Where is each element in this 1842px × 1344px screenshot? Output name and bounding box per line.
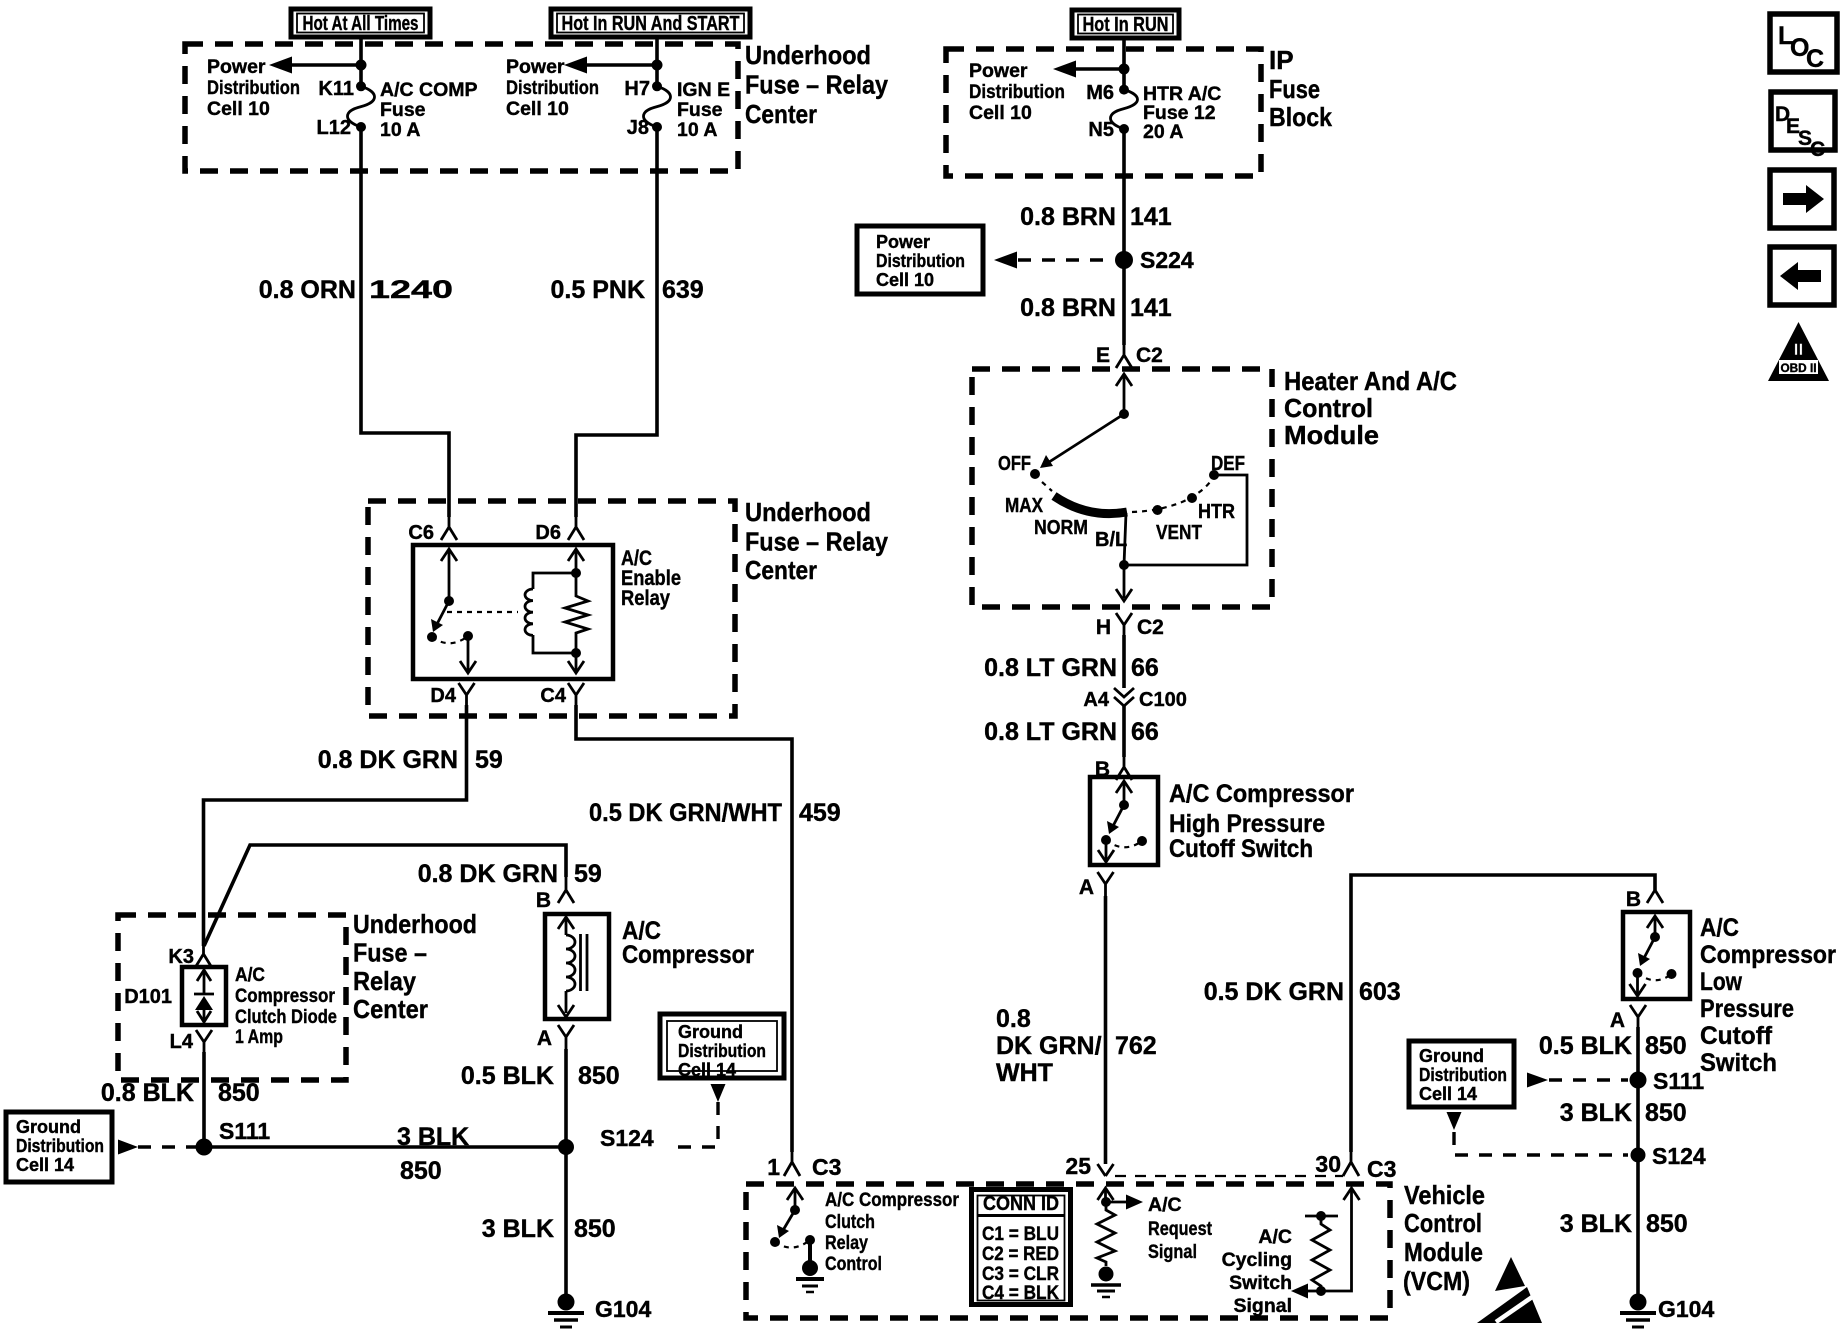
power tag Hot In RUN [1072,10,1179,38]
label A/C COMP Fuse 10 A [380,79,478,141]
wire D4 to K3, circuit 59 [204,705,467,946]
dashed arrow power distribution to S224 [994,252,1112,269]
svg-text:3 BLK: 3 BLK [1560,1210,1632,1238]
svg-text:0.5 BLK: 0.5 BLK [461,1062,554,1090]
svg-text:M6: M6 [1086,82,1114,104]
pin 1 entry arrow inside VCM [787,1188,803,1210]
svg-text:Compressor: Compressor [1700,941,1836,969]
low pressure switch element [1630,916,1677,996]
svg-text:Distribution: Distribution [969,81,1065,103]
svg-text:B/L: B/L [1095,529,1127,551]
label A/C Enable Relay [621,547,681,610]
svg-text:Request: Request [1148,1218,1212,1240]
svg-text:141: 141 [1130,203,1172,231]
wire A to VCM pin 25, circuit 762 [1104,896,1108,1164]
box IP Fuse Block (dashed) [946,49,1261,176]
connector A4 C100 (chevrons) [1083,688,1186,711]
label 0.8 DK GRN 59 (lower) [418,860,602,888]
relay switch arm [431,601,449,632]
svg-text:C: C [1810,138,1825,161]
label 0.5 PNK 639 [551,276,704,304]
label Power Distribution Cell 10 (right) [506,56,599,120]
label Power Distribution Cell 10 (left) [207,56,300,120]
node cycling switch tap [1316,1286,1326,1296]
svg-text:DK GRN/: DK GRN/ [996,1032,1102,1060]
svg-text:DEF: DEF [1211,453,1245,475]
icon DESC button [1771,92,1835,161]
A/C Compressor High Pressure Cutoff Switch box [1090,777,1158,865]
label 0.8 ORN 1240 [259,276,453,304]
svg-text:C100: C100 [1139,689,1187,711]
svg-text:A/C Compressor: A/C Compressor [825,1189,959,1211]
svg-text:A/C: A/C [1148,1194,1182,1216]
svg-text:VENT: VENT [1156,522,1202,544]
clutch relay control switch pivot node [790,1205,800,1215]
svg-text:C2: C2 [1136,344,1163,367]
svg-text:850: 850 [578,1062,620,1090]
svg-text:A4: A4 [1083,689,1109,711]
clutch relay control switch arm [777,1210,795,1238]
svg-text:K3: K3 [168,946,194,968]
svg-text:B: B [536,889,551,912]
svg-text:IP: IP [1269,45,1294,75]
wire A to S111 (right), circuit 850 [1636,1027,1640,1079]
svg-text:A: A [1610,1009,1625,1032]
label 3 BLK 850 (horizontal run) [397,1123,469,1185]
svg-text:0.8 ORN: 0.8 ORN [259,276,356,304]
wire S111 to S124 (right), circuit 850 [1636,1080,1640,1155]
svg-text:L12: L12 [317,117,351,139]
label Power Distribution Cell 10 (IP) [969,60,1065,124]
dashed contact arc (clutch relay) [775,1240,810,1248]
svg-text:H7: H7 [624,78,650,100]
svg-text:Switch: Switch [1700,1049,1777,1077]
svg-text:0.8 DK GRN: 0.8 DK GRN [318,746,458,774]
svg-text:0.8 BLK: 0.8 BLK [101,1079,194,1107]
svg-text:Signal: Signal [1148,1241,1197,1263]
svg-text:B: B [1626,888,1641,911]
connector H C2 (female) [1096,613,1164,639]
svg-text:Distribution: Distribution [678,1041,766,1061]
box Underhood Fuse-Relay Center (middle, dashed) [368,501,735,716]
wire J8 to D6, circuit 639 [576,127,657,517]
svg-text:Fuse: Fuse [677,99,723,121]
svg-text:Pressure: Pressure [1700,995,1794,1023]
box Underhood Fuse-Relay Center (top, dashed) [185,44,738,171]
svg-text:Cell 14: Cell 14 [678,1060,736,1080]
svg-text:Center: Center [745,99,817,129]
svg-text:850: 850 [1645,1099,1687,1127]
wire S111 to S124, circuit 850 [204,1145,566,1149]
svg-text:Cycling: Cycling [1222,1249,1292,1271]
label Underhood Fuse-Relay Center (middle) [745,497,888,585]
svg-text:0.5 BLK: 0.5 BLK [1539,1032,1632,1060]
wire C100 to B, circuit 66 [1122,706,1126,757]
svg-text:Compressor: Compressor [622,941,754,969]
wire C4 to VCM pin 1, circuit 459 [576,705,792,1152]
svg-text:762: 762 [1115,1032,1157,1060]
wire compressor A to S124, circuit 850 [564,1049,568,1147]
svg-text:Distribution: Distribution [506,77,599,99]
label IGN E Fuse 10 A [677,79,730,141]
svg-text:0.8 BRN: 0.8 BRN [1020,294,1116,322]
svg-text:C2 = RED: C2 = RED [982,1243,1059,1265]
svg-text:850: 850 [1646,1210,1688,1238]
label A/C Compressor [622,917,754,969]
power tag Hot At All Times [291,9,430,37]
svg-text:Fuse: Fuse [1269,74,1320,104]
wire from Hot At All Times [359,38,363,87]
A/C Compressor box [545,914,609,1019]
svg-text:25: 25 [1065,1153,1091,1179]
contact OFF [998,453,1040,479]
resistor A/C cycling switch [1305,1211,1338,1291]
label HTR A/C Fuse 12 20 A [1143,83,1221,143]
svg-text:J8: J8 [627,117,649,139]
connector B at high pressure switch (male) [1095,757,1132,781]
svg-text:G104: G104 [1658,1296,1714,1322]
svg-text:Cutoff Switch: Cutoff Switch [1169,835,1313,863]
svg-text:1: 1 [767,1154,780,1180]
connector D4 (female) [430,683,474,707]
selector arm to OFF [1040,414,1124,468]
svg-text:0.8: 0.8 [996,1005,1031,1033]
svg-text:459: 459 [799,799,841,827]
svg-text:Control: Control [825,1253,882,1275]
relay switch contact node (right) [463,631,473,641]
svg-text:WHT: WHT [996,1059,1053,1087]
svg-text:Cell 14: Cell 14 [1419,1084,1477,1104]
svg-text:S124: S124 [1652,1143,1706,1169]
svg-text:Fuse – Relay: Fuse – Relay [745,70,888,100]
wire L12 to C6, circuit 1240 [361,127,449,517]
arrow A/C Cycling Switch Signal [1291,1284,1321,1299]
ground inside VCM (clutch relay) [796,1240,824,1292]
connector A at compressor (female) [537,1025,574,1050]
svg-text:Module: Module [1404,1237,1483,1267]
svg-text:A/C Compressor: A/C Compressor [1169,780,1354,808]
arrow to power distribution (left) [269,57,361,74]
contact HTR [1187,493,1235,523]
splice S124 [558,1125,654,1155]
fuse IGN E 10A (H7-J8) [644,81,671,132]
svg-text:Power: Power [969,60,1028,82]
label A/C Compressor Low Pressure Cutoff Switch [1700,914,1836,1077]
svg-text:Power: Power [506,56,565,78]
wire coil to C4 with arrow [568,653,584,673]
svg-text:Distribution: Distribution [207,77,300,99]
svg-text:Underhood: Underhood [745,40,871,70]
svg-text:Distribution: Distribution [876,251,965,271]
wire S124 to G104, circuit 850 [564,1147,568,1294]
connector B at compressor (male) [536,877,574,912]
svg-text:Fuse – Relay: Fuse – Relay [745,527,888,557]
svg-text:OBD II: OBD II [1781,361,1817,375]
svg-text:Ground: Ground [678,1022,743,1042]
wire from Hot In RUN And START [655,38,659,87]
dashed link middle ground box to S124 [668,1084,726,1147]
svg-text:Low: Low [1700,968,1742,996]
icon next-page arrow button [1770,170,1834,228]
svg-text:Power: Power [207,56,266,78]
svg-text:OFF: OFF [998,453,1031,475]
svg-text:Center: Center [353,994,428,1024]
svg-text:C3: C3 [812,1154,841,1180]
box Ground Distribution Cell 14 (middle) [660,1014,784,1080]
label 0.5 BLK 850 [461,1062,620,1090]
splice S124 (right) [1631,1143,1706,1169]
svg-text:Ground: Ground [16,1117,81,1137]
box Vehicle Control Module (dashed) [746,1184,1390,1318]
svg-text:0.5 DK GRN: 0.5 DK GRN [1204,978,1344,1006]
clutch relay contact node (right) [805,1235,815,1245]
fuse A/C COMP 10A (K11-L12) [348,81,375,132]
svg-text:30: 30 [1315,1151,1341,1177]
svg-text:A/C: A/C [235,964,265,986]
label Vehicle Control Module (VCM) [1403,1180,1485,1296]
svg-text:II: II [1794,340,1803,359]
node at IGN E fuse top [652,60,663,71]
svg-text:Cutoff: Cutoff [1700,1022,1773,1050]
svg-text:C2: C2 [1137,616,1164,639]
svg-text:Control: Control [1284,393,1373,423]
wire L4 to S111, circuit 850 [202,1052,206,1147]
svg-text:S111: S111 [219,1118,270,1144]
label Underhood Fuse-Relay Center (top) [745,40,888,129]
connector C3 internal dashed link pins 25-30 [1115,1175,1343,1177]
svg-text:A/C: A/C [1700,914,1739,942]
svg-text:66: 66 [1131,654,1159,682]
label IP Fuse Block [1269,45,1332,132]
node at A/C COMP fuse top [356,60,367,71]
wire H to C100, circuit 66 [1122,635,1126,688]
arrow A/C Request Signal [1106,1195,1143,1210]
svg-text:S111: S111 [1653,1068,1704,1094]
label 3 BLK 850 (to G104) [482,1215,616,1243]
svg-text:603: 603 [1359,978,1401,1006]
svg-text:A: A [1079,876,1094,899]
resistor A/C request pull-down [1097,1202,1115,1266]
wire C6 entry arrow inside relay [441,549,457,601]
box Ground Distribution Cell 14 (right) [1409,1041,1514,1107]
label A/C Compressor Clutch Diode 1 Amp [235,964,337,1048]
svg-text:A/C COMP: A/C COMP [380,79,478,101]
connector A at high pressure switch (female) [1079,872,1114,899]
connector pin 30 C3 (male) [1315,1151,1396,1182]
connector B at low pressure switch (male) [1626,888,1663,911]
svg-text:C3: C3 [1367,1156,1396,1182]
svg-text:0.5 PNK: 0.5 PNK [551,276,645,304]
label 3 BLK 850 (right lower) [1560,1210,1688,1238]
label 0.8 LT GRN 66 (lower) [984,718,1159,746]
svg-text:850: 850 [400,1157,442,1185]
pin 25 entry arrow inside VCM [1098,1188,1114,1202]
svg-text:0.5 DK GRN/WHT: 0.5 DK GRN/WHT [589,799,782,827]
wire B/L to output with arrow [1116,513,1132,601]
svg-text:Fuse –: Fuse – [353,938,427,968]
svg-text:Clutch: Clutch [825,1211,875,1233]
box Ground Distribution Cell 14 (left) [6,1112,112,1182]
ground G104 (left) [548,1294,651,1328]
dashed arc B/L-VENT-HTR-DEF [1132,479,1212,512]
svg-text:Distribution: Distribution [1419,1065,1507,1085]
svg-text:D6: D6 [535,522,561,544]
svg-text:C1 = BLU: C1 = BLU [982,1223,1059,1245]
svg-text:0.8 LT GRN: 0.8 LT GRN [984,654,1117,682]
svg-text:IGN E: IGN E [677,79,730,101]
svg-text:3 BLK: 3 BLK [482,1215,554,1243]
svg-text:Underhood: Underhood [353,909,477,939]
relay A/C Enable Relay box [413,545,613,679]
label A/C Compressor High Pressure Cutoff Switch [1169,780,1354,863]
contact VENT [1153,505,1203,544]
connector D6 (male) [535,517,584,544]
label 0.8 LT GRN 66 (upper) [984,654,1159,682]
wire N5 to S224, circuit 141 [1122,129,1126,260]
contact DEF [1209,453,1245,480]
relay switch pivot node [444,596,454,606]
svg-text:Control: Control [1404,1208,1482,1238]
svg-text:639: 639 [662,276,704,304]
svg-text:Block: Block [1269,102,1332,132]
svg-text:S124: S124 [600,1125,654,1151]
svg-text:Cell 10: Cell 10 [506,98,569,120]
svg-text:Compressor: Compressor [235,985,335,1007]
svg-text:NORM: NORM [1034,517,1088,539]
svg-text:0.8 LT GRN: 0.8 LT GRN [984,718,1117,746]
high pressure switch element [1098,781,1147,862]
label 0.8 BRN 141 (upper) [1020,203,1172,231]
connector K3 (male) [168,946,211,968]
svg-text:850: 850 [218,1079,260,1107]
wire contact to D4 with arrow [460,636,476,673]
svg-text:141: 141 [1130,294,1172,322]
svg-text:Cell 10: Cell 10 [969,102,1032,124]
svg-text:(VCM): (VCM) [1403,1266,1470,1296]
svg-text:Fuse: Fuse [380,99,426,121]
svg-text:Ground: Ground [1419,1046,1484,1066]
label Underhood Fuse-Relay Center (diode box) [353,909,477,1024]
svg-text:CONN ID: CONN ID [983,1193,1059,1215]
dashed tick OFF to MAX [1042,482,1052,491]
svg-text:D101: D101 [124,986,172,1008]
svg-text:Hot In RUN: Hot In RUN [1083,14,1169,36]
selector thick arc MAX-NORM-B/L [1054,496,1127,514]
box Underhood Fuse-Relay Center (diode, dashed) [118,915,346,1080]
A/C Compressor Low Pressure Cutoff Switch box [1623,912,1690,999]
wire S124 to G104 (right), circuit 850 [1636,1155,1640,1294]
svg-text:Cell 10: Cell 10 [876,270,934,290]
svg-text:Heater And A/C: Heater And A/C [1284,366,1457,396]
svg-text:MAX: MAX [1005,495,1044,517]
label 0.5 DK GRN 603 [1204,978,1401,1006]
clutch relay contact node (left) [770,1237,780,1247]
relay coil [525,573,576,653]
svg-text:H: H [1096,616,1111,639]
label 0.8 DK GRN 59 (upper) [318,746,503,774]
label 0.8 DK GRN/ WHT 762 [996,1005,1157,1087]
svg-text:C4 = BLK: C4 = BLK [982,1282,1059,1304]
svg-text:Hot In RUN And START: Hot In RUN And START [562,13,740,35]
svg-text:3 BLK: 3 BLK [1560,1099,1632,1127]
svg-text:G104: G104 [595,1296,651,1322]
relay resistor [565,573,588,653]
svg-text:D4: D4 [430,685,456,707]
diode D101 box [182,967,226,1025]
ground inside VCM (request signal) [1091,1267,1121,1298]
node coil bottom [571,648,581,658]
svg-text:Cell 10: Cell 10 [207,98,270,120]
icon LOC button [1770,14,1837,73]
dashed link ground distribution to S124 (right) [1447,1112,1629,1155]
svg-text:Signal: Signal [1233,1295,1292,1317]
dashed contact arc [432,636,468,643]
dashed arrow ground distribution to S111 [118,1140,197,1155]
svg-text:C6: C6 [408,522,434,544]
svg-text:10 A: 10 A [380,119,420,141]
node at HTR A/C fuse top [1119,64,1130,75]
svg-text:Switch: Switch [1229,1272,1292,1294]
label 0.8 BLK 850 [101,1079,260,1107]
svg-text:Distribution: Distribution [16,1136,104,1156]
label 0.5 DK GRN/WHT 459 [589,799,841,827]
svg-text:Underhood: Underhood [745,497,871,527]
svg-text:Relay: Relay [825,1232,868,1254]
label 3 BLK 850 (right upper) [1560,1099,1687,1127]
svg-text:HTR: HTR [1198,501,1235,523]
icon previous-page arrow button [1770,247,1834,305]
splice S224 [1115,247,1194,273]
pin 30 entry arrow inside VCM [1321,1188,1360,1291]
relay switch contact node (left) [427,632,437,642]
connector A at low pressure switch (female) [1610,1005,1646,1032]
svg-text:N5: N5 [1088,119,1114,141]
svg-text:0.8 BRN: 0.8 BRN [1020,203,1116,231]
node A/C request tap [1101,1197,1111,1207]
label 0.8 BRN 141 (lower) [1020,294,1172,322]
svg-text:A/C: A/C [1258,1226,1292,1248]
arrow to power distribution (IP) [1053,61,1124,78]
svg-text:A: A [537,1027,552,1050]
splice S111 (right) [1630,1068,1705,1094]
wire VCM pin 30 to low pressure switch B, circuit 603 [1351,875,1655,1152]
svg-text:20 A: 20 A [1143,121,1183,143]
connector L4 (female) [170,1030,212,1053]
wire D6 entry arrow inside relay [568,549,584,573]
svg-text:1240: 1240 [369,276,453,304]
svg-text:C: C [1806,45,1824,73]
node output junction [1119,560,1129,570]
svg-text:Hot At All Times: Hot At All Times [303,13,419,35]
svg-text:1 Amp: 1 Amp [235,1026,283,1048]
connector E C2 (male) [1096,344,1163,368]
entry arrow inside heater module [1116,374,1132,414]
connector C4 (female) [540,683,584,707]
svg-text:E: E [1096,344,1110,367]
connector pin 1 C3 (male) [767,1152,841,1180]
wire K3 branch to compressor B, circuit 59 [204,845,566,946]
svg-text:Power: Power [876,232,930,252]
node coil top [571,568,581,578]
svg-text:Vehicle: Vehicle [1404,1180,1485,1210]
box Heater And A/C Control Module (dashed) [972,369,1272,607]
icon OBD II triangle [1768,322,1829,381]
svg-text:Cell 14: Cell 14 [16,1155,74,1175]
power tag Hot In RUN And START [551,9,750,37]
diode element with arrows [194,970,214,1022]
label A/C Request Signal [1148,1194,1212,1263]
label A/C Cycling Switch Signal [1222,1226,1292,1317]
